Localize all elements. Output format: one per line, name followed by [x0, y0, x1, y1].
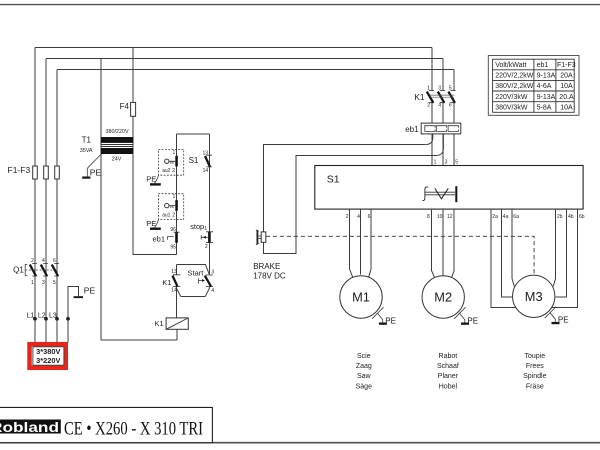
svg-text:F4: F4	[120, 102, 130, 111]
svg-text:Schaaf: Schaaf	[437, 363, 459, 370]
svg-text:5: 5	[455, 159, 458, 165]
svg-text:4: 4	[438, 103, 441, 109]
svg-text:M3: M3	[525, 289, 543, 304]
svg-text:4b: 4b	[568, 214, 574, 220]
svg-text:3: 3	[438, 86, 441, 92]
svg-text:20.A: 20.A	[559, 94, 574, 101]
svg-text:6b: 6b	[579, 214, 585, 220]
svg-text:PE: PE	[146, 219, 156, 228]
svg-text:9-13A: 9-13A	[537, 94, 556, 101]
svg-text:Planer: Planer	[438, 373, 459, 380]
svg-text:220V/3kW: 220V/3kW	[495, 94, 528, 101]
svg-text:eb1: eb1	[152, 234, 165, 243]
svg-text:2: 2	[427, 103, 430, 109]
svg-text:4-6A: 4-6A	[537, 83, 552, 90]
svg-text:Saw: Saw	[357, 373, 372, 380]
svg-text:96: 96	[170, 227, 176, 233]
svg-text:3: 3	[42, 280, 45, 286]
svg-text:380V/2,2kW: 380V/2,2kW	[495, 83, 534, 90]
svg-text:Fräse: Fräse	[526, 384, 544, 391]
svg-text:9-13A: 9-13A	[537, 73, 556, 80]
svg-text:K1: K1	[162, 278, 171, 287]
svg-text:13: 13	[171, 269, 177, 275]
svg-text:2a: 2a	[492, 214, 498, 220]
svg-text:PE: PE	[90, 167, 102, 177]
svg-text:6: 6	[53, 258, 56, 264]
svg-text:4a: 4a	[503, 214, 509, 220]
svg-text:T1: T1	[82, 136, 92, 145]
svg-text:BRAKE: BRAKE	[253, 262, 280, 271]
svg-text:1: 1	[434, 159, 437, 165]
svg-text:Scie: Scie	[357, 353, 371, 360]
svg-text:2b: 2b	[557, 214, 563, 220]
svg-text:12: 12	[447, 214, 453, 220]
svg-text:PE: PE	[146, 175, 156, 184]
svg-text:4: 4	[211, 288, 214, 294]
svg-text:5-8A: 5-8A	[537, 104, 552, 111]
svg-text:Start: Start	[188, 268, 205, 277]
svg-text:au2: au2	[162, 168, 171, 174]
svg-text:5: 5	[53, 280, 56, 286]
svg-text:2: 2	[31, 258, 34, 264]
svg-text:PE: PE	[467, 316, 478, 325]
svg-text:CE • X260 - X 310 TRI: CE • X260 - X 310 TRI	[64, 419, 203, 440]
svg-text:PE: PE	[84, 286, 96, 296]
svg-text:20A: 20A	[560, 73, 573, 80]
svg-text:F1-F3: F1-F3	[557, 62, 576, 69]
svg-text:au1: au1	[162, 213, 171, 219]
svg-text:2: 2	[172, 213, 175, 219]
svg-text:F1-F3: F1-F3	[8, 165, 31, 175]
svg-text:Frees: Frees	[526, 363, 544, 370]
svg-text:1: 1	[427, 86, 430, 92]
svg-text:1: 1	[173, 150, 176, 156]
svg-text:1: 1	[173, 194, 176, 200]
svg-text:Q1: Q1	[13, 265, 24, 274]
svg-text:Volt/kWatt: Volt/kWatt	[495, 62, 526, 69]
svg-text:Toupie: Toupie	[524, 353, 545, 360]
svg-text:3*380V: 3*380V	[36, 347, 60, 356]
svg-text:220V/2,2kW: 220V/2,2kW	[495, 73, 534, 80]
svg-text:8: 8	[427, 214, 430, 220]
svg-text:eb1: eb1	[405, 125, 419, 134]
svg-text:14: 14	[171, 288, 177, 294]
svg-text:1: 1	[204, 226, 207, 232]
svg-text:1: 1	[31, 280, 34, 286]
svg-text:PE: PE	[385, 316, 396, 325]
svg-text:2: 2	[346, 214, 349, 220]
svg-text:S1: S1	[189, 156, 199, 165]
svg-text:14: 14	[203, 168, 209, 174]
svg-text:10A: 10A	[560, 104, 573, 111]
svg-text:K1: K1	[155, 319, 164, 328]
svg-text:2: 2	[205, 244, 208, 250]
svg-text:13: 13	[202, 150, 208, 156]
svg-text:M2: M2	[434, 290, 452, 305]
svg-text:6: 6	[449, 103, 452, 109]
svg-text:380V/3kW: 380V/3kW	[495, 104, 528, 111]
svg-text:S1: S1	[327, 173, 340, 185]
svg-text:4: 4	[42, 258, 45, 264]
svg-text:6: 6	[368, 214, 371, 220]
svg-text:5: 5	[449, 86, 452, 92]
svg-text:380/220V: 380/220V	[105, 129, 128, 135]
svg-text:4: 4	[357, 214, 360, 220]
svg-text:10: 10	[437, 214, 443, 220]
svg-text:3*220V: 3*220V	[36, 356, 60, 365]
svg-text:M1: M1	[352, 290, 370, 305]
svg-text:Spindle: Spindle	[523, 373, 546, 380]
svg-text:10A: 10A	[560, 83, 573, 90]
svg-text:3: 3	[211, 270, 214, 276]
svg-text:Rabot: Rabot	[439, 353, 458, 360]
svg-text:eb1: eb1	[537, 62, 549, 69]
svg-text:K1: K1	[414, 92, 425, 102]
svg-text:PE: PE	[558, 316, 569, 325]
svg-text:35VA: 35VA	[80, 148, 93, 154]
svg-text:Robland: Robland	[0, 420, 59, 435]
svg-text:Zaag: Zaag	[356, 363, 372, 370]
svg-text:stop: stop	[190, 222, 204, 231]
svg-text:178V DC: 178V DC	[253, 272, 286, 281]
svg-text:2: 2	[172, 168, 175, 174]
svg-text:95: 95	[170, 244, 176, 250]
svg-text:6a: 6a	[513, 214, 519, 220]
svg-text:Säge: Säge	[356, 384, 372, 391]
svg-text:Hobel: Hobel	[439, 384, 458, 391]
svg-text:3: 3	[445, 159, 448, 165]
svg-text:24V: 24V	[112, 156, 122, 162]
